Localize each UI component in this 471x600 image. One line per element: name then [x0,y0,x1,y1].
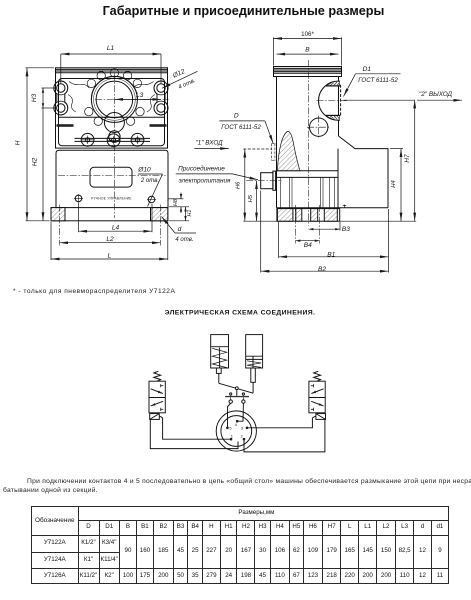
svg-text:L1: L1 [107,45,115,52]
svg-text:электропитания: электропитания [179,177,232,184]
svg-text:H3: H3 [31,93,38,102]
svg-text:1: 1 [231,433,234,438]
svg-text:5: 5 [229,425,232,430]
svg-text:D: D [234,113,239,120]
svg-text:H7: H7 [404,154,411,163]
svg-text:H5: H5 [248,194,254,202]
svg-text:"1" ВХОД: "1" ВХОД [195,140,223,147]
svg-text:L3: L3 [136,92,144,99]
svg-text:ГОСТ 6111-52: ГОСТ 6111-52 [358,77,398,84]
svg-text:B2: B2 [318,266,326,273]
svg-text:Ø10: Ø10 [137,167,151,174]
svg-text:L2: L2 [106,236,114,243]
svg-text:H8: H8 [173,199,179,206]
svg-text:ЭЛЕКТРИЧЕСКАЯ СХЕМА СОЕДИНЕНИЯ: ЭЛЕКТРИЧЕСКАЯ СХЕМА СОЕДИНЕНИЯ. [165,309,316,316]
svg-text:H6: H6 [235,181,241,189]
svg-text:4: 4 [235,422,238,427]
svg-text:3: 3 [241,425,244,430]
svg-text:L: L [108,252,112,259]
svg-text:H: H [15,140,22,145]
svg-text:4 отв.: 4 отв. [178,78,197,91]
svg-text:Ø12: Ø12 [171,68,186,80]
svg-text:D1: D1 [363,66,372,73]
svg-text:"2" ВЫХОД: "2" ВЫХОД [419,91,453,98]
svg-text:B1: B1 [327,251,335,258]
svg-text:d: d [178,226,182,233]
svg-text:L4: L4 [112,225,120,232]
svg-text:РУЧНОЕ УПРАВЛЕНИЕ: РУЧНОЕ УПРАВЛЕНИЕ [91,196,131,200]
svg-text:106*: 106* [301,31,314,38]
svg-text:4 отв.: 4 отв. [175,237,193,243]
svg-text:H1: H1 [187,210,193,217]
svg-text:Присоединение: Присоединение [178,165,225,173]
svg-text:2 отв.: 2 отв. [140,178,159,184]
svg-text:ГОСТ 6111-52: ГОСТ 6111-52 [221,124,261,131]
svg-text:H2: H2 [32,157,39,166]
svg-text:2: 2 [240,433,243,438]
svg-text:H4: H4 [391,180,397,187]
svg-text:B4: B4 [304,242,312,249]
svg-text:B3: B3 [342,226,350,233]
svg-text:B: B [305,47,310,54]
